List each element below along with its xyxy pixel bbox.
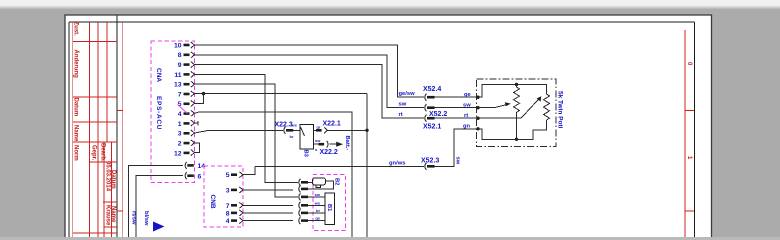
- svg-text:X52.1: X52.1: [423, 123, 441, 130]
- wire to B1.3: [308, 212, 325, 214]
- svg-text:X22.1: X22.1: [323, 120, 341, 127]
- pin CNA.2: [178, 140, 195, 148]
- svg-text:Batt.-: Batt.-: [344, 136, 350, 151]
- wire CNB.4 to B1: [243, 220, 293, 222]
- svg-text:8: 8: [178, 52, 182, 59]
- svg-text:CNB: CNB: [209, 195, 216, 209]
- svg-text:8: 8: [226, 210, 230, 217]
- wire X22.3 to B3: [293, 129, 300, 131]
- title block red grid verticals: [73, 22, 112, 237]
- pin CNA.4: [178, 110, 195, 118]
- node poti ge entry: [476, 96, 479, 99]
- svg-text:ge: ge: [464, 92, 472, 98]
- wire CNA.9 to X52.1: [195, 65, 425, 119]
- svg-text:11: 11: [174, 72, 181, 79]
- pin CNB.5: [226, 172, 243, 180]
- svg-text:br: br: [316, 208, 320, 213]
- svg-text:6: 6: [198, 173, 202, 180]
- svg-text:ge: ge: [315, 216, 320, 221]
- wire X22.2 arrow to Batt: [330, 143, 338, 145]
- contact B1.2: [299, 202, 308, 209]
- svg-text:bl/sw: bl/sw: [143, 211, 149, 226]
- wire CNA.13 to B1: [195, 84, 299, 197]
- svg-text:5: 5: [226, 172, 230, 179]
- frame right red line: [685, 30, 694, 237]
- svg-text:X52.3: X52.3: [421, 157, 439, 164]
- buzzer B2 body: [313, 178, 326, 188]
- wire CNB.8 to B1: [243, 212, 293, 214]
- B1 B2 dashed box: [313, 175, 346, 231]
- svg-text:10: 10: [174, 42, 182, 49]
- poti box dash-dot: [477, 79, 557, 147]
- pin CNA.3: [178, 130, 195, 138]
- contact B1.1: [299, 193, 308, 200]
- svg-text:sw: sw: [455, 157, 461, 165]
- svg-text:1: 1: [178, 121, 182, 128]
- contact X52.1: [423, 115, 441, 131]
- pin CNA.1: [178, 120, 195, 128]
- connector CNA box: [151, 41, 195, 183]
- wire to B1.2: [308, 204, 325, 206]
- pin CNA.9: [178, 62, 195, 69]
- svg-text:05.03.2014: 05.03.2014: [104, 161, 110, 192]
- sensor B3 body: [300, 125, 314, 149]
- svg-text:Norm: Norm: [73, 145, 79, 161]
- pin CNA.8: [178, 52, 195, 59]
- wire CNA.4 long to bottom: [195, 112, 353, 237]
- wire B2 return loop: [308, 181, 333, 189]
- pin CNA.7: [178, 91, 195, 98]
- resistor R1 track: [514, 85, 520, 140]
- svg-text:X22.3: X22.3: [275, 122, 293, 129]
- wire gn/ws row: [255, 165, 424, 167]
- svg-text:X52.4: X52.4: [423, 86, 441, 93]
- svg-text:rt/sw: rt/sw: [131, 211, 137, 225]
- node poti sw entry: [476, 106, 479, 109]
- TITLE BLOCK (rotated): [69, 16, 117, 238]
- svg-text:13: 13: [174, 82, 182, 89]
- variant mark magenta diagonal pins 5-4: [178, 105, 188, 114]
- wire X52.3 to poti gn: [435, 129, 479, 167]
- pin CNA.11: [174, 71, 194, 78]
- sensor B1 body: [325, 193, 335, 225]
- svg-text:X52.2: X52.2: [429, 111, 447, 118]
- wire CNA.11 to B2: [195, 74, 299, 182]
- svg-text:5k Twin Poti: 5k Twin Poti: [557, 91, 564, 129]
- pin CNA.6: [185, 172, 201, 180]
- wire X52.2 to poti: [435, 107, 479, 109]
- svg-text:gn: gn: [463, 124, 471, 130]
- svg-text:B3: B3: [303, 150, 309, 158]
- node pin7 junction: [202, 92, 205, 95]
- svg-text:2: 2: [178, 141, 182, 148]
- contact X22.3: [275, 122, 294, 134]
- wire CNB.3 to B contact: [243, 189, 293, 191]
- contact B2 in: [299, 179, 308, 186]
- svg-text:Änderung: Änderung: [73, 50, 80, 79]
- wire bottom rail: [478, 120, 547, 139]
- connector CNB box: [204, 166, 243, 227]
- wiper R1: [478, 104, 508, 107]
- title block red grid horizontals: [73, 42, 117, 234]
- svg-text:7: 7: [178, 91, 182, 98]
- wire CNB.5 up to gn/ws: [243, 166, 255, 174]
- svg-text:rt: rt: [464, 113, 468, 119]
- node X22.1 junction: [365, 129, 368, 132]
- svg-text:3: 3: [178, 131, 182, 138]
- wire CNA.6 down: [136, 176, 183, 237]
- svg-text:Bearb.: Bearb.: [100, 143, 106, 162]
- wire top rail: [478, 85, 547, 98]
- svg-text:B2: B2: [334, 178, 340, 185]
- node poti gn entry: [476, 127, 479, 130]
- svg-text:12: 12: [174, 150, 182, 157]
- pin CNA.12: [174, 150, 195, 158]
- B3 internal mark: [301, 127, 305, 136]
- sheet link arrow blue: [153, 222, 165, 232]
- wiper R2: [478, 99, 539, 118]
- wire CNA.1 stub: [195, 121, 199, 126]
- svg-text:ws: ws: [314, 200, 321, 205]
- svg-text:Zust.: Zust.: [73, 22, 79, 37]
- node poti rt entry: [476, 117, 479, 120]
- pin CNB.4: [226, 218, 243, 226]
- pin CNA.10: [174, 42, 195, 49]
- svg-text:gn/ws: gn/ws: [389, 160, 405, 166]
- pin CNA.14: [185, 162, 205, 170]
- node R1 bottom: [515, 138, 518, 141]
- DRAWING FRAME: [117, 22, 695, 237]
- svg-text:Name: Name: [73, 125, 79, 142]
- contact X52.4: [423, 86, 441, 101]
- contact B1.3: [299, 209, 308, 216]
- svg-text:X22.2: X22.2: [320, 149, 338, 156]
- contact X22.1: [314, 120, 341, 133]
- svg-text:Krause: Krause: [104, 205, 110, 226]
- svg-text:Gepr.: Gepr.: [91, 145, 97, 161]
- pin CNB.3: [226, 187, 243, 195]
- contact B1.4: [299, 217, 308, 224]
- wire CNA.3 to X22.3: [195, 130, 284, 133]
- wire CNA.7 branch to CNA.5: [195, 94, 204, 104]
- wire CNA.8 to X52.2: [195, 55, 425, 108]
- svg-text:br: br: [290, 134, 294, 139]
- node R1 top: [515, 83, 518, 86]
- wire CNA.14 down: [129, 165, 184, 237]
- wire to B1.1: [308, 196, 325, 198]
- svg-text:sw: sw: [315, 138, 321, 143]
- svg-text:ge/sw: ge/sw: [399, 91, 416, 97]
- svg-text:CNA: CNA: [155, 68, 162, 82]
- resistor R2 track: [544, 94, 550, 120]
- svg-text:4: 4: [178, 111, 182, 118]
- title block outer border: [69, 16, 117, 238]
- wire vertical to bottom from node: [366, 94, 368, 237]
- pin CNA.13: [174, 81, 195, 88]
- svg-text:B1: B1: [326, 204, 332, 212]
- contact X22.2: [314, 141, 338, 156]
- pin CNB.8: [226, 210, 243, 218]
- frame left red line: [117, 22, 123, 237]
- wire CNA.2 to CNA.12: [195, 143, 200, 153]
- pin CNA.5: [178, 100, 195, 108]
- svg-text:Datum: Datum: [73, 98, 79, 117]
- svg-text:sw: sw: [315, 192, 321, 197]
- pin CNB.7: [226, 202, 243, 210]
- wire CNA.7 main: [195, 93, 368, 95]
- contact X52.2: [425, 104, 448, 118]
- svg-text:3: 3: [226, 187, 230, 194]
- contact X52.3: [421, 157, 439, 170]
- wire contact to B2: [308, 181, 313, 183]
- svg-text:rt: rt: [399, 112, 403, 118]
- svg-text:gr: gr: [317, 125, 321, 130]
- svg-text:EPS-ACU: EPS-ACU: [155, 96, 162, 130]
- wire X52.4 to poti: [435, 96, 479, 98]
- svg-text:sw: sw: [399, 102, 407, 108]
- wire CNA.10 to X52.4: [195, 45, 425, 97]
- wire to B1.4: [308, 220, 325, 222]
- wire X22.1 to node: [328, 129, 368, 131]
- svg-text:ws: ws: [291, 123, 298, 128]
- svg-text:7: 7: [226, 203, 230, 210]
- wire CNB.7 to B1: [243, 204, 293, 206]
- wire X52.1 to poti: [435, 117, 479, 119]
- inner frame top line: [117, 22, 695, 237]
- svg-text:9: 9: [178, 62, 182, 69]
- svg-text:sw: sw: [463, 103, 471, 109]
- svg-text:4: 4: [226, 218, 230, 225]
- white drawing sheet: [65, 15, 712, 238]
- contact B2 return: [299, 185, 308, 192]
